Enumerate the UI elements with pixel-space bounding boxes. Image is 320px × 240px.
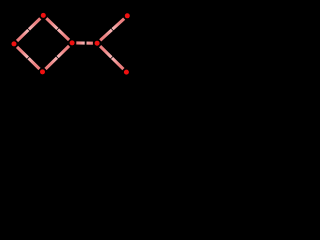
node D [70, 40, 75, 45]
edge B-C (wire) [17, 47, 40, 69]
edge A-B (wire) [17, 18, 40, 41]
edge D-E (wire) [76, 41, 93, 44]
node B [12, 41, 17, 46]
edge A-D (wire) [46, 18, 69, 40]
edge E-G (wire) [100, 46, 123, 69]
edge C-D (wire) [46, 46, 70, 69]
edge E-F (wire) [100, 19, 124, 41]
node E [95, 41, 100, 46]
node G [124, 70, 129, 75]
node C [40, 69, 45, 74]
node A [41, 13, 46, 18]
node F [125, 13, 130, 18]
